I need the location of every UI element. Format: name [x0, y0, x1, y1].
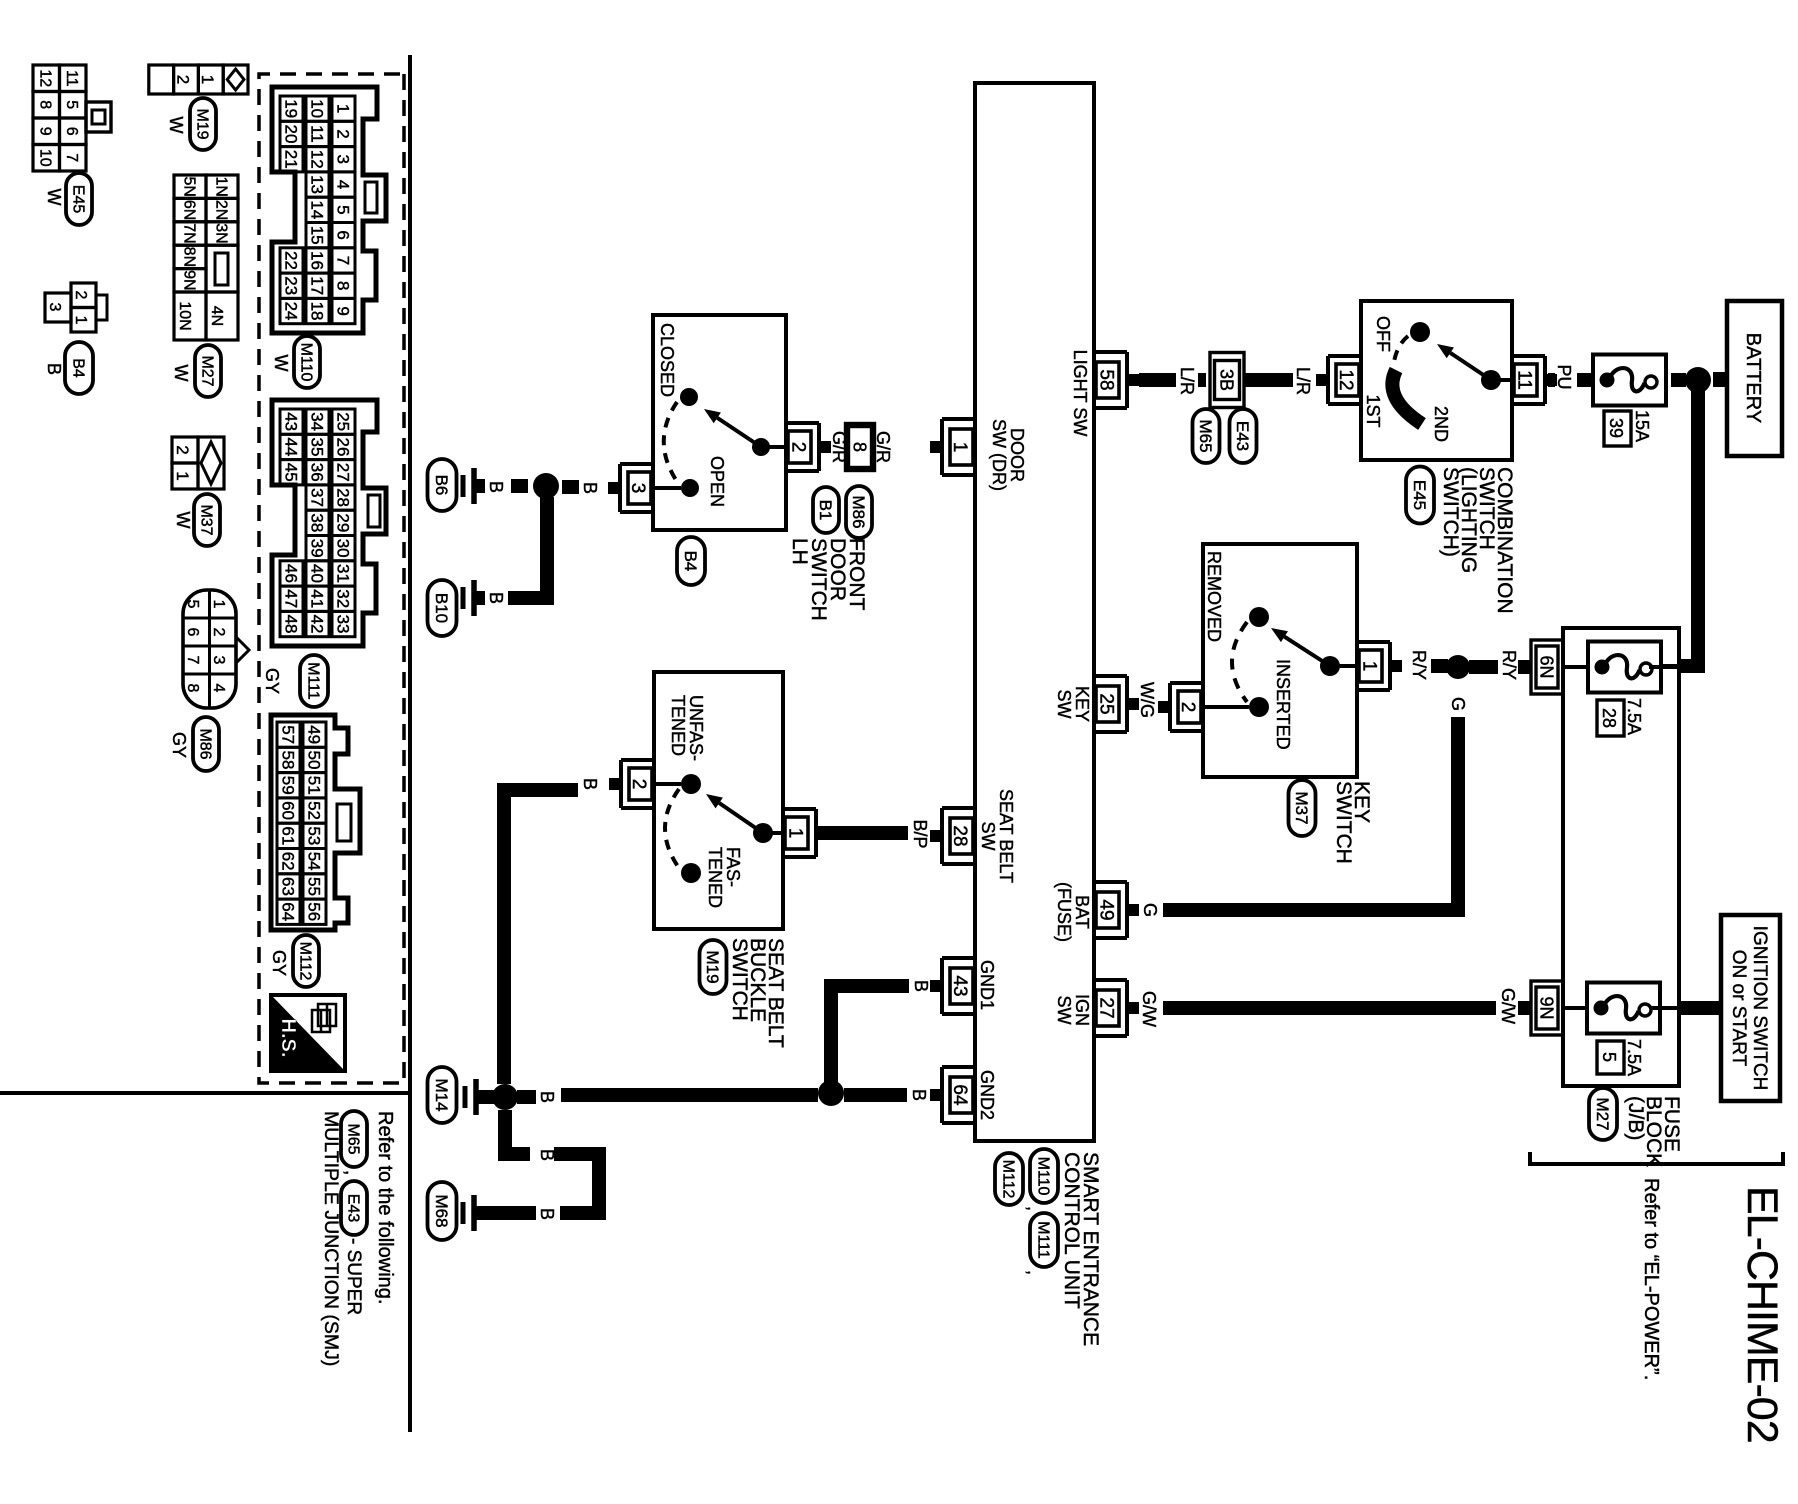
svg-text:UNFAS-: UNFAS-: [686, 695, 706, 761]
door switch arm arrow to CLOSED: [717, 418, 761, 447]
seat belt switch contact: [768, 831, 783, 835]
svg-text:- SUPER: - SUPER: [343, 1238, 364, 1315]
svg-text:SW: SW: [978, 822, 998, 851]
svg-text:B: B: [486, 481, 506, 493]
svg-text:MULTIPLE JUNCTION (SMJ): MULTIPLE JUNCTION (SMJ): [320, 1111, 342, 1366]
svg-text:W/G: W/G: [1137, 682, 1157, 718]
connector M27 oval: [1589, 1088, 1617, 1140]
svg-text:SW: SW: [1054, 690, 1074, 719]
svg-text:7: 7: [63, 153, 80, 162]
seat belt switch pin 1: [814, 809, 818, 857]
wire B junction to B10 ground: [508, 497, 547, 598]
svg-text:OPEN: OPEN: [707, 456, 727, 507]
svg-text:M86: M86: [849, 495, 868, 528]
svg-text:8: 8: [333, 281, 352, 290]
svg-text:W: W: [166, 117, 186, 134]
svg-text:36: 36: [307, 463, 326, 482]
svg-text:56: 56: [304, 902, 323, 921]
svg-text:11: 11: [307, 125, 326, 143]
node door ground junction: [533, 473, 559, 499]
harness symbol H.S.: [271, 995, 345, 1071]
node gnd1 gnd2 junction: [818, 1080, 844, 1106]
svg-text:24: 24: [281, 302, 300, 321]
svg-text:62: 62: [278, 852, 297, 871]
svg-text:10N: 10N: [176, 301, 193, 330]
svg-text:H.S.: H.S.: [277, 1019, 299, 1058]
svg-text:17: 17: [307, 276, 326, 295]
svg-text:13: 13: [307, 175, 326, 194]
connector M27 oval: [195, 345, 221, 397]
refer-to bracket for fuse block: [1530, 1152, 1783, 1164]
wire unfastened contact to pin 2: [655, 782, 681, 786]
combination switch contact: [1496, 378, 1512, 382]
svg-text:7.5A: 7.5A: [1624, 1039, 1644, 1076]
connector M112 oval: [995, 1153, 1023, 1205]
fuse number 28: [1597, 700, 1624, 736]
smart entrance pin 64 GND2: [940, 1067, 944, 1123]
svg-text:B: B: [580, 778, 600, 790]
combination switch pin 12: [1326, 356, 1330, 404]
svg-text:IGNITION SWITCH: IGNITION SWITCH: [1749, 926, 1770, 1091]
svg-text:L/R: L/R: [1177, 367, 1197, 395]
connector M19 pinout: [223, 65, 248, 94]
svg-text:8N: 8N: [180, 247, 197, 267]
svg-text:3N: 3N: [212, 223, 229, 243]
svg-text:SEAT BELT: SEAT BELT: [996, 789, 1016, 883]
svg-text:B: B: [537, 1208, 557, 1220]
smart entrance pin 27 IGN SW: [1125, 980, 1129, 1036]
svg-text:49: 49: [1096, 899, 1117, 920]
svg-text:40: 40: [307, 564, 326, 583]
svg-text:9: 9: [36, 127, 53, 136]
svg-text:14: 14: [307, 200, 326, 219]
front door switch LH box B4: [653, 315, 786, 530]
smart entrance pin 25 KEY SW: [1125, 676, 1129, 732]
connector M112 pinout: [271, 715, 360, 930]
svg-text:SW (DR): SW (DR): [989, 419, 1009, 491]
svg-text:3B: 3B: [1217, 369, 1237, 391]
svg-text:15: 15: [307, 226, 326, 245]
connector M19 oval: [700, 940, 727, 994]
connector M112 oval: [293, 935, 319, 987]
wire open contact to pin 3: [654, 486, 681, 490]
svg-text:4N: 4N: [208, 306, 225, 326]
connector E45 oval: [66, 173, 92, 225]
svg-text:LH: LH: [788, 538, 811, 565]
node R/Y junction: [1446, 655, 1470, 679]
svg-text:7.5A: 7.5A: [1624, 698, 1644, 735]
svg-text:1: 1: [173, 471, 192, 480]
svg-text:E45: E45: [1410, 480, 1429, 510]
door switch CLOSED position: [680, 388, 698, 406]
svg-text:54: 54: [304, 852, 323, 871]
svg-text:KEY: KEY: [1072, 686, 1092, 722]
svg-text:12: 12: [307, 150, 326, 169]
connector M110 pinout: [272, 87, 386, 333]
svg-text:M65: M65: [1196, 419, 1215, 452]
key switch pin 2: [1168, 683, 1172, 731]
svg-text:G: G: [1448, 697, 1468, 711]
connector M65 oval small: [341, 1111, 367, 1167]
connector 8 (B1/M86): [849, 427, 872, 468]
svg-text:M27: M27: [1593, 1097, 1612, 1130]
svg-text:49: 49: [304, 725, 323, 744]
key switch contact: [1336, 664, 1357, 668]
connector E43 oval: [1230, 409, 1257, 463]
connector M37 pinout: [198, 437, 224, 489]
svg-text:4: 4: [333, 180, 352, 189]
connector M27 pinout: [206, 175, 238, 198]
svg-text:SW: SW: [1054, 996, 1074, 1025]
battery: [1727, 301, 1782, 456]
svg-text:23: 23: [281, 276, 300, 295]
svg-text:M112: M112: [999, 1160, 1016, 1199]
border line between legend and SMJ note: [0, 1091, 408, 1095]
svg-text:16: 16: [307, 251, 326, 270]
door switch contact: [766, 445, 786, 449]
svg-text:7: 7: [184, 656, 201, 665]
svg-text:Refer to the following.: Refer to the following.: [374, 1111, 396, 1304]
svg-text:G/R: G/R: [829, 431, 849, 463]
smart entrance pin 1 DOOR SW(DR): [940, 419, 944, 475]
svg-text:28: 28: [949, 825, 970, 846]
svg-text:W: W: [173, 512, 193, 529]
svg-text:W: W: [271, 355, 291, 372]
svg-text:10: 10: [307, 99, 326, 118]
fuse block pin 9N: [1536, 987, 1558, 1029]
smart entrance pin 49 BAT(FUSE): [1125, 882, 1129, 938]
svg-text:8: 8: [184, 684, 201, 693]
key switch REMOVED position: [1249, 607, 1269, 627]
svg-text:1: 1: [210, 600, 227, 609]
svg-text:5: 5: [184, 600, 201, 609]
connector M86 oval: [193, 717, 219, 771]
combination switch OFF position: [1410, 322, 1430, 342]
svg-text:27: 27: [1096, 997, 1117, 1018]
svg-text:SWITCH: SWITCH: [728, 938, 751, 1021]
connector B10 oval: [428, 580, 457, 636]
key switch dashed travel: [1232, 622, 1247, 702]
key switch box M37: [1203, 544, 1357, 777]
svg-text:B: B: [44, 363, 64, 375]
legend dashed box: [259, 74, 404, 1083]
svg-text:37: 37: [307, 488, 326, 507]
ground M14: [477, 1090, 494, 1104]
connector M111 pinout: [272, 400, 386, 646]
ground B6: [471, 468, 477, 504]
svg-text:46: 46: [281, 564, 300, 583]
svg-text:1: 1: [949, 442, 970, 453]
svg-text:64: 64: [278, 902, 297, 921]
fuse 15A: [1593, 355, 1666, 406]
svg-text:1: 1: [198, 75, 217, 84]
connector B4 oval: [65, 342, 93, 394]
border line between diagram and connector legend: [408, 55, 412, 1432]
combination switch 1ST-2ND arc: [1392, 370, 1422, 424]
svg-text:M14: M14: [432, 1078, 451, 1111]
svg-text:SWITCH): SWITCH): [1439, 467, 1462, 557]
connector M65 oval: [1193, 409, 1220, 463]
wire inserted contact to pin 2: [1204, 705, 1249, 709]
smart entrance control unit box: [975, 83, 1094, 1141]
svg-text:B/P: B/P: [910, 819, 930, 848]
connector B4 oval: [677, 537, 705, 585]
svg-text:2ND: 2ND: [1431, 406, 1451, 442]
svg-text:58: 58: [278, 750, 297, 769]
key switch arm arrow to REMOVED: [1284, 637, 1330, 666]
svg-text:44: 44: [281, 437, 300, 456]
svg-text:W: W: [44, 189, 64, 206]
svg-text:M68: M68: [432, 1194, 451, 1227]
combination switch pin 11: [1543, 356, 1547, 404]
svg-text:28: 28: [333, 488, 352, 507]
connector B1 oval: [813, 487, 839, 533]
connector B4 pinout: [71, 283, 96, 308]
wire junction to fuse 15A: [1671, 373, 1686, 387]
svg-text:52: 52: [304, 801, 323, 820]
connector M37 oval: [194, 494, 220, 546]
svg-text:41: 41: [307, 589, 326, 608]
svg-text:25: 25: [1096, 693, 1117, 714]
wire PU fuse to combination switch pin 11: [1577, 373, 1591, 387]
svg-text:43: 43: [949, 975, 970, 996]
svg-text:(FUSE): (FUSE): [1054, 882, 1074, 942]
wire thick battery junction to fuse block: [1677, 391, 1698, 666]
key switch INSERTED position: [1249, 697, 1269, 717]
fuse 7.5A (28): [1588, 642, 1661, 693]
wire fuse 5 to top edge: [1651, 1006, 1679, 1010]
smart entrance pin 43 GND1: [940, 958, 944, 1014]
svg-text:26: 26: [333, 437, 352, 456]
seat belt switch FASTENED position: [681, 863, 701, 883]
connector M68 oval: [428, 1182, 457, 1240]
connector M110 oval: [1030, 1149, 1058, 1203]
svg-text:B: B: [909, 1089, 929, 1101]
door switch OPEN position: [681, 479, 699, 497]
svg-text:64: 64: [949, 1084, 970, 1106]
svg-text:2: 2: [788, 442, 809, 453]
svg-text:57: 57: [278, 725, 297, 744]
svg-text:9N: 9N: [180, 270, 197, 290]
svg-text:(J/B): (J/B): [1624, 1096, 1647, 1140]
wire B GND junction down from smart entrance: [561, 1088, 818, 1102]
svg-text:9: 9: [333, 306, 352, 315]
svg-text:EL-CHIME-02: EL-CHIME-02: [1738, 1186, 1786, 1443]
svg-text:M27: M27: [198, 355, 215, 386]
svg-text:61: 61: [278, 826, 297, 845]
svg-text:OFF: OFF: [1373, 316, 1393, 352]
svg-text:6N: 6N: [1537, 655, 1557, 678]
svg-text:B: B: [580, 482, 600, 494]
svg-text:12: 12: [36, 69, 53, 87]
svg-text:G: G: [1140, 903, 1160, 917]
svg-text:50: 50: [304, 750, 323, 769]
svg-text:L/R: L/R: [1293, 367, 1313, 395]
wire R/Y junction to fuse block 6N: [1469, 660, 1498, 674]
connector B6 oval: [428, 459, 457, 511]
node ground junction M14: [492, 1084, 518, 1110]
svg-text:39: 39: [1606, 418, 1626, 438]
svg-text:29: 29: [333, 513, 352, 532]
svg-text:,: ,: [1024, 1206, 1044, 1211]
svg-text:53: 53: [304, 826, 323, 845]
svg-text:5N: 5N: [180, 176, 197, 196]
svg-text:2: 2: [173, 445, 192, 454]
wire fuse 28 to top edge: [1661, 664, 1679, 668]
door switch pin 2: [817, 423, 821, 471]
combination switch dashed travel: [1394, 336, 1408, 362]
door switch dashed travel: [664, 402, 678, 483]
svg-text:Refer to “EL-POWER”.: Refer to “EL-POWER”.: [1640, 1178, 1662, 1380]
svg-text:M111: M111: [1034, 1221, 1051, 1259]
svg-text:31: 31: [333, 564, 352, 583]
svg-text:B4: B4: [69, 358, 86, 378]
wire L/R SMJ to smart entrance pin 58: [1198, 373, 1206, 387]
svg-text:LIGHT SW: LIGHT SW: [1070, 350, 1090, 437]
fuse number 39: [1604, 411, 1631, 446]
svg-text:2: 2: [628, 779, 649, 790]
svg-text:27: 27: [333, 463, 352, 482]
svg-text:INSERTED: INSERTED: [1273, 659, 1293, 750]
svg-text:E43: E43: [1233, 421, 1252, 451]
svg-text:5: 5: [333, 205, 352, 214]
svg-text:DOOR: DOOR: [1007, 428, 1027, 482]
svg-text:G/W: G/W: [1498, 988, 1518, 1024]
wire battery to junction: [1713, 372, 1727, 387]
connector 3B (SMJ): [1215, 361, 1240, 400]
svg-text:B: B: [911, 980, 931, 992]
svg-text:M37: M37: [197, 504, 214, 535]
svg-text:9N: 9N: [1537, 996, 1557, 1019]
smart entrance pin 28 SEAT BELT SW: [940, 808, 944, 864]
svg-text:10: 10: [36, 149, 53, 167]
combination switch (lighting switch) box E45: [1361, 301, 1512, 460]
svg-text:3: 3: [210, 656, 227, 665]
svg-text:1ST: 1ST: [1363, 394, 1383, 427]
svg-text:3: 3: [46, 303, 63, 312]
seat belt switch UNFASTENED position: [681, 774, 701, 794]
svg-text:12: 12: [1335, 369, 1356, 390]
svg-text:34: 34: [307, 412, 326, 431]
svg-text:M37: M37: [1292, 791, 1311, 824]
wire to M68 ground: [476, 1206, 536, 1220]
svg-text:B6: B6: [432, 475, 451, 496]
svg-text:59: 59: [278, 776, 297, 795]
svg-text:4: 4: [210, 684, 227, 693]
svg-text:M111: M111: [304, 662, 321, 700]
svg-text:M65: M65: [344, 1123, 361, 1154]
wire inside fuse block to 6N: [1564, 665, 1588, 669]
svg-text:6: 6: [333, 230, 352, 239]
svg-text:CLOSED: CLOSED: [657, 323, 677, 397]
svg-text:G/W: G/W: [1139, 991, 1159, 1027]
svg-text:B: B: [486, 592, 506, 604]
svg-text:B1: B1: [816, 500, 835, 521]
svg-text:5: 5: [1599, 1052, 1619, 1062]
svg-text:60: 60: [278, 801, 297, 820]
svg-text:39: 39: [307, 539, 326, 558]
node battery junction: [1685, 367, 1711, 393]
connector M37 oval: [1289, 780, 1316, 836]
connector M19 oval: [190, 98, 216, 150]
svg-text:GY: GY: [262, 668, 282, 694]
svg-text:E45: E45: [69, 185, 86, 214]
svg-text:B4: B4: [681, 551, 700, 572]
svg-text:58: 58: [1096, 369, 1117, 390]
wire G/W fuse block 9N to smart entrance pin 27: [1518, 1001, 1531, 1015]
svg-text:W: W: [171, 365, 191, 382]
key switch pin 1: [1388, 642, 1392, 690]
fuse block (J/B) box M27: [1563, 628, 1679, 1086]
svg-text:M110: M110: [297, 343, 314, 382]
svg-text:FAS-: FAS-: [723, 847, 743, 887]
connector M110 oval: [294, 336, 320, 388]
svg-text:20: 20: [281, 124, 300, 143]
connector E45 oval: [1406, 467, 1434, 524]
svg-text:2N: 2N: [212, 200, 229, 220]
svg-text:BAT: BAT: [1072, 895, 1092, 929]
connector M86 pinout: [183, 590, 236, 708]
seat belt switch pin 2: [619, 760, 623, 808]
connector E43 oval small: [341, 1181, 367, 1235]
svg-text:CONTROL UNIT: CONTROL UNIT: [1060, 1152, 1083, 1309]
connector E45 pinout: [60, 65, 87, 92]
svg-text:63: 63: [278, 877, 297, 896]
svg-text:55: 55: [304, 877, 323, 896]
svg-text:35: 35: [307, 437, 326, 456]
wire ignition switch to fuse 5: [1679, 1001, 1721, 1015]
seat belt switch dashed travel: [665, 789, 679, 868]
connector M111 oval: [1030, 1213, 1058, 1267]
svg-text:25: 25: [333, 412, 352, 431]
svg-text:11: 11: [63, 70, 80, 87]
svg-text:M19: M19: [703, 950, 722, 983]
svg-text:1: 1: [785, 828, 806, 839]
svg-text:2: 2: [333, 129, 352, 138]
svg-text:M19: M19: [193, 108, 210, 139]
wire B junction to M68 ground: [505, 1110, 530, 1154]
svg-text:3: 3: [333, 155, 352, 164]
svg-text:1: 1: [1359, 661, 1380, 672]
ignition switch box: [1721, 915, 1780, 1101]
fuse number 5: [1597, 1041, 1624, 1074]
svg-text:19: 19: [281, 99, 300, 118]
svg-text:8: 8: [850, 442, 870, 452]
svg-text:2: 2: [173, 75, 192, 84]
svg-text:45: 45: [281, 463, 300, 482]
svg-text:1: 1: [72, 316, 89, 325]
svg-text:M112: M112: [296, 942, 313, 981]
svg-text:30: 30: [333, 539, 352, 558]
seat belt buckle switch box M19: [654, 672, 783, 929]
svg-text:7: 7: [333, 256, 352, 265]
svg-text:GND1: GND1: [977, 960, 997, 1010]
svg-text:1N: 1N: [212, 176, 229, 196]
svg-text:B: B: [537, 1091, 557, 1103]
svg-text:42: 42: [307, 615, 326, 634]
connector M14 oval: [428, 1067, 457, 1123]
svg-text:1: 1: [333, 104, 352, 113]
svg-text:6: 6: [184, 628, 201, 637]
svg-text:SWITCH: SWITCH: [1332, 781, 1355, 864]
seat belt switch arm arrow to UNFASTENED: [719, 803, 763, 833]
smart entrance pin 58 LIGHT SW: [1125, 352, 1129, 408]
connector M86 oval: [846, 486, 872, 538]
svg-text:2: 2: [210, 628, 227, 637]
svg-text:TENED: TENED: [668, 695, 688, 756]
fuse 7.5A (5): [1587, 983, 1660, 1034]
fuse block pin 6N: [1536, 646, 1558, 688]
